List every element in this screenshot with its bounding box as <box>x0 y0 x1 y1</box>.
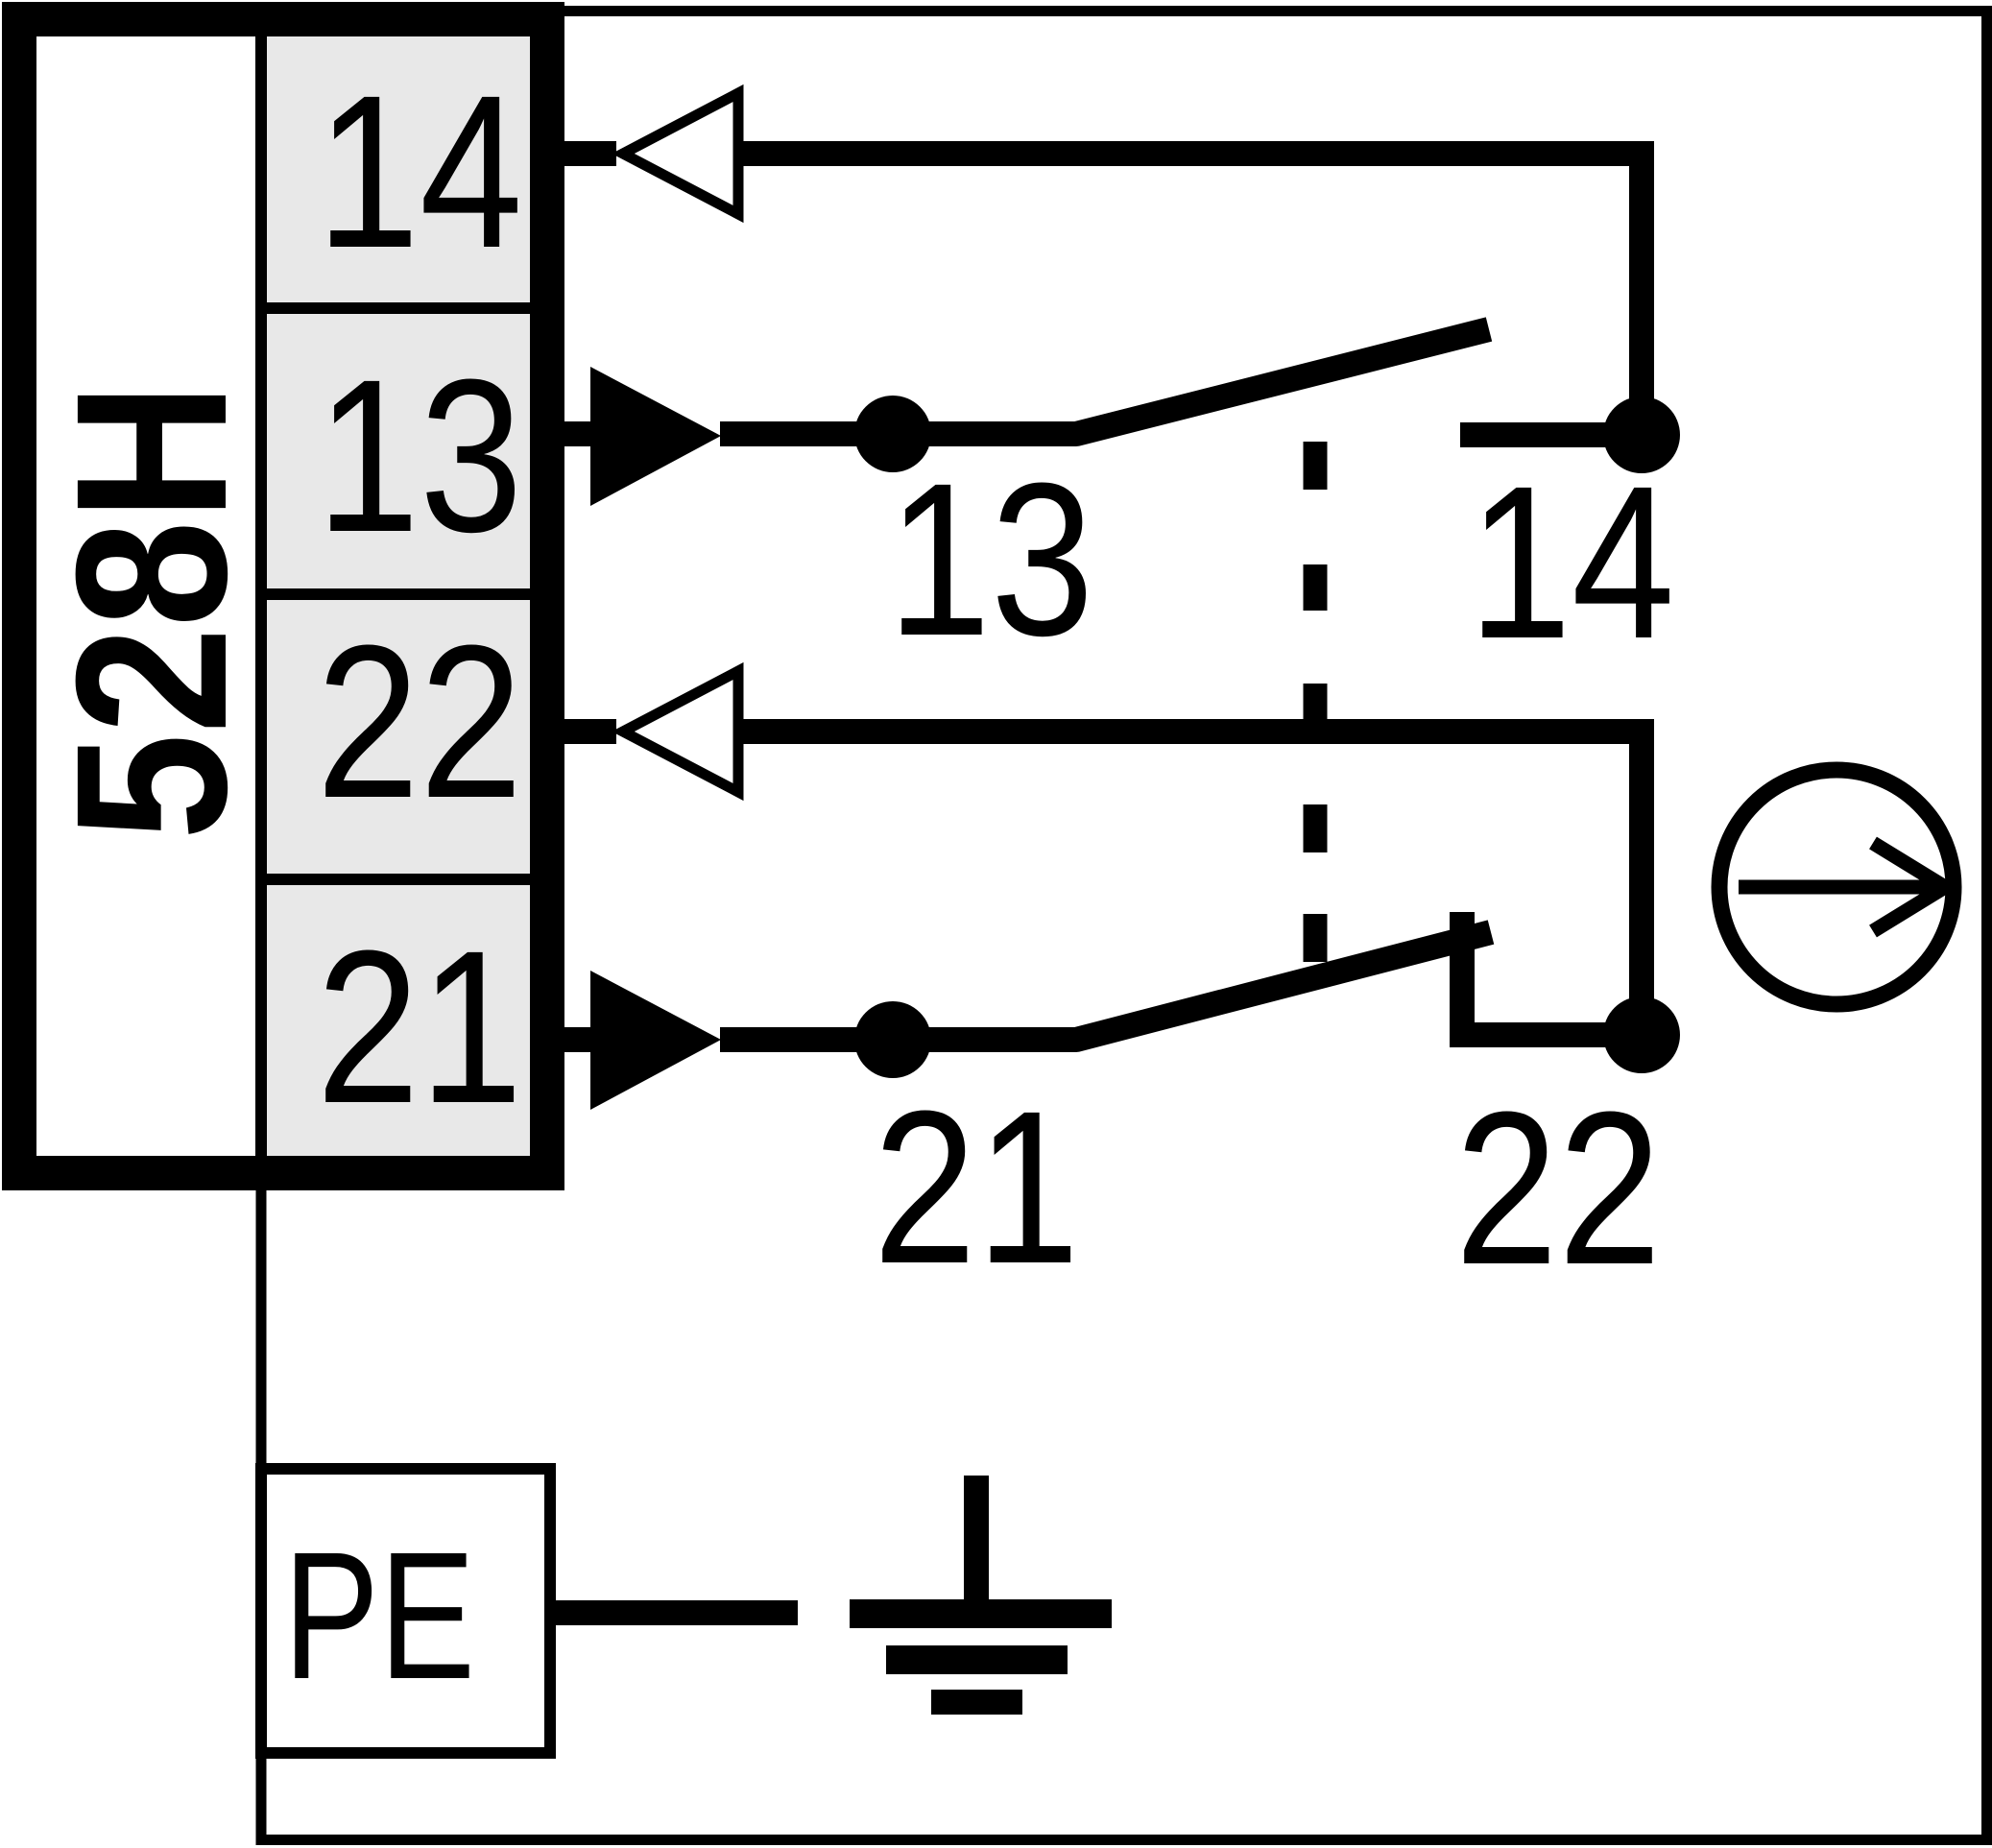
svg-text:22: 22 <box>317 601 523 844</box>
device block 528H <box>19 19 547 1173</box>
svg-text:13: 13 <box>317 335 523 578</box>
svg-text:14: 14 <box>1469 442 1675 684</box>
svg-text:21: 21 <box>317 906 523 1149</box>
terminal strip background <box>267 36 530 1156</box>
wire 14 run and drop <box>743 154 1642 435</box>
svg-text:22: 22 <box>1455 1068 1662 1310</box>
open arrowhead 14 <box>623 93 738 214</box>
open arrowhead 22 <box>623 671 738 792</box>
wire 13 run <box>720 329 1489 434</box>
svg-text:21: 21 <box>874 1067 1080 1309</box>
filled arrowhead 21 <box>590 971 721 1110</box>
wire terminal 22 stub <box>564 719 616 744</box>
svg-text:PE: PE <box>283 1515 475 1717</box>
junction dot 22 <box>1603 996 1680 1073</box>
wire terminal 14 stub <box>564 141 616 166</box>
ground bar 1 <box>850 1599 1112 1628</box>
contact stub 14 <box>1460 422 1642 447</box>
actuator arrowhead <box>1873 843 1945 931</box>
junction dot 14 <box>1603 396 1680 473</box>
terminal PE box <box>261 1469 550 1753</box>
svg-text:13: 13 <box>888 439 1094 682</box>
wire 21 run <box>720 932 1491 1040</box>
ground bar 2 <box>886 1645 1068 1674</box>
wire PE <box>556 1600 798 1625</box>
terminal divider 14/13 <box>255 302 530 314</box>
terminal divider 13/22 <box>255 588 530 600</box>
terminal divider 22/21 <box>255 874 530 885</box>
ground bar 3 <box>931 1690 1022 1715</box>
wire 22 run and drop <box>743 732 1642 1035</box>
junction dot 21 <box>854 1001 931 1078</box>
mechanical link dashed line <box>1304 442 1328 962</box>
svg-text:528H: 528H <box>31 382 271 840</box>
actuator circle <box>1719 770 1954 1004</box>
junction dot 13 <box>854 396 931 472</box>
filled arrowhead 13 <box>590 367 721 506</box>
svg-text:14: 14 <box>317 51 523 294</box>
wire terminal 21 stub <box>564 1027 591 1052</box>
ground stem <box>964 1476 989 1602</box>
fixed contact 22 hook <box>1462 912 1642 1035</box>
wire terminal 13 stub <box>564 421 591 446</box>
terminal strip divider <box>255 36 267 1156</box>
actuator arrow shaft <box>1739 880 1939 895</box>
